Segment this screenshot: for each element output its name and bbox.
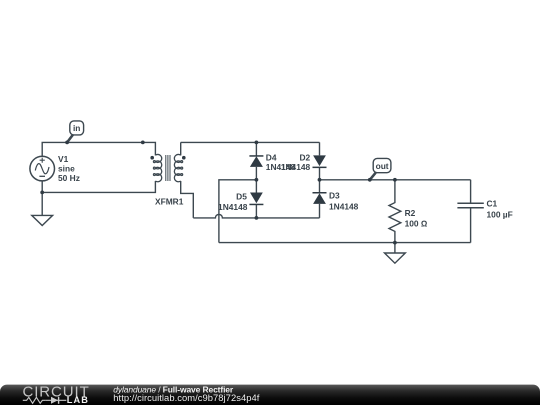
svg-text:1N4148: 1N4148 (218, 202, 248, 212)
svg-text:100 Ω: 100 Ω (405, 219, 428, 229)
diode D5 leads (255, 180, 257, 218)
wire secondary bottom step down to bridge bottom (181, 181, 194, 218)
diode D3 bar (313, 192, 327, 194)
svg-text:1N4148: 1N4148 (281, 162, 311, 172)
svg-text:D3: D3 (329, 191, 340, 201)
junction dot bridge bottom left (255, 216, 259, 220)
transformer XFMR1 core (166, 155, 170, 181)
junction dot R2 bottom (393, 241, 397, 245)
diode D4 triangle (250, 156, 263, 167)
diode D4 leads (255, 142, 257, 179)
svg-text:100 µF: 100 µF (487, 210, 513, 220)
junction dot out-flag (368, 178, 372, 182)
transformer XFMR1 primary lead top (143, 142, 156, 155)
capacitor C1 leads (470, 180, 472, 243)
ground symbol under R2 lead (394, 243, 396, 253)
diode D3 triangle (313, 193, 326, 204)
voltage source V1 circle (30, 156, 55, 181)
junction dot bridge mid left (255, 178, 259, 182)
wire primary bottom to V1 (42, 181, 155, 192)
ground symbol under R2 (385, 253, 406, 263)
svg-text:D4: D4 (266, 152, 277, 162)
wire V1 bottom lead to ground (41, 181, 43, 216)
diode D4 bar (249, 155, 263, 157)
svg-text:R2: R2 (405, 208, 416, 218)
junction dot V1 bottom (40, 191, 44, 195)
voltage source V1 plus sign (40, 158, 45, 163)
junction dot XFMR primary pin (141, 141, 145, 145)
transformer XFMR1 primary coil (155, 154, 161, 181)
diode D3 leads (319, 180, 321, 218)
transformer phase dot primary (150, 156, 154, 160)
svg-text:XFMR1: XFMR1 (155, 197, 184, 207)
in flag tail (67, 135, 73, 143)
diode D2 bar (313, 167, 327, 169)
voltage source V1 sine wave (35, 164, 49, 174)
svg-text:out: out (376, 161, 389, 171)
wire V1 top lead to top rail (42, 142, 143, 156)
svg-text:50 Hz: 50 Hz (58, 173, 80, 183)
junction dot in-flag (65, 141, 69, 145)
svg-text:D2: D2 (299, 152, 310, 162)
svg-text:1N4148: 1N4148 (329, 201, 359, 211)
junction dot R2 top (393, 178, 397, 182)
wire DC minus: mid-left to down rail (219, 180, 257, 243)
wire secondary top to bridge top rail (181, 141, 320, 143)
capacitor C1 plates (457, 203, 483, 208)
resistor R2 body (389, 180, 401, 243)
diode D2 triangle (313, 155, 326, 166)
diode D5 triangle (250, 193, 263, 204)
svg-text:LAB: LAB (67, 395, 89, 405)
junction dot bridge top left (255, 141, 259, 145)
svg-text:C1: C1 (487, 199, 498, 209)
svg-text:in: in (73, 123, 80, 133)
transformer XFMR1 primary coil curls (153, 161, 155, 176)
wire bottom rail (219, 242, 471, 244)
svg-text:http://circuitlab.com/c9b78j72: http://circuitlab.com/c9b78j72s4p4f (113, 392, 259, 403)
out flag box (373, 158, 391, 172)
in flag box (70, 121, 84, 135)
wire mid-right out rail (320, 179, 471, 181)
diode D2 leads (319, 142, 321, 179)
svg-text:V1: V1 (58, 154, 69, 164)
diode D5 bar (249, 204, 263, 206)
transformer XFMR1 secondary coil (174, 154, 180, 181)
wire bridge bottom with hop over vertical (193, 214, 319, 217)
transformer phase dot secondary (182, 156, 186, 160)
svg-text:D5: D5 (236, 191, 247, 201)
voltage source V1 minus sign (39, 175, 45, 177)
logo doodle resistor and diode (23, 397, 67, 403)
junction dot bridge mid right (318, 178, 322, 182)
transformer XFMR1 secondary coil curls (181, 161, 183, 176)
out flag tail (370, 173, 376, 180)
transformer XFMR1 secondary lead top (180, 142, 182, 155)
ground symbol under V1 (32, 215, 53, 225)
